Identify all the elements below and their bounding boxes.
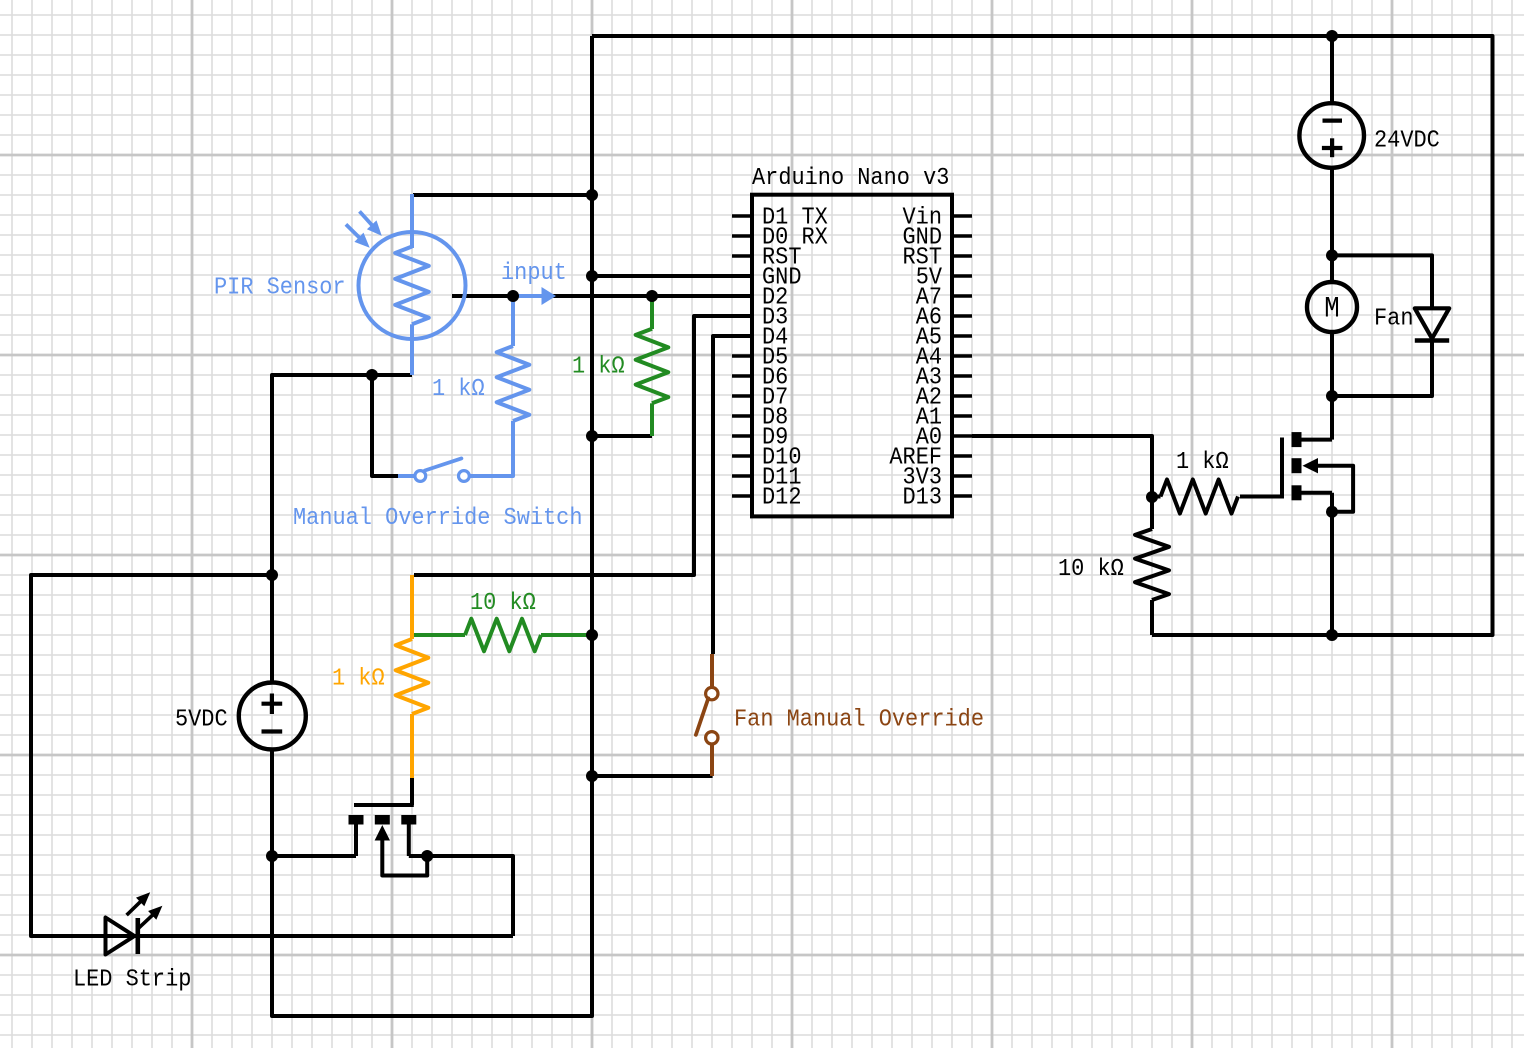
svg-text:1 kΩ: 1 kΩ (572, 354, 625, 381)
label LED Strip (73, 967, 191, 994)
photoresistor PIR sensor (346, 194, 466, 375)
wire A0 to gate node (972, 436, 1152, 497)
junction green resistor bottom / rail (586, 430, 598, 442)
switch Manual Override (blue) (398, 458, 469, 481)
label 1 kOhm blue (432, 376, 485, 403)
label 24VDC (1374, 128, 1440, 155)
resistor 1 kOhm (orange) (396, 575, 429, 778)
svg-text:1 kΩ: 1 kΩ (332, 666, 385, 693)
motor M (fan) (1307, 282, 1357, 396)
svg-text:5VDC: 5VDC (175, 707, 228, 734)
wire left main vertical x=592 + bottom (272, 36, 592, 1016)
label PIR Sensor (214, 275, 346, 302)
resistor 1 kOhm (blue, PIR pulldown) (470, 296, 529, 476)
junction Q1 source-body (421, 850, 433, 862)
wire green resistor bottom (592, 434, 652, 438)
junction PIR top / 5V rail (586, 189, 598, 201)
wire GND pin (592, 274, 752, 278)
label 10 kOhm green (470, 590, 536, 617)
diode D1 (flyback) (1332, 255, 1449, 396)
svg-text:24VDC: 24VDC (1374, 128, 1440, 155)
wire D2 input line (452, 294, 752, 298)
label M (1324, 293, 1339, 327)
svg-text:1 kΩ: 1 kΩ (1176, 449, 1229, 476)
wire PIR top to rail (413, 193, 592, 197)
label 1 kOhm green (572, 354, 625, 381)
wire 5VDC top / switch-left branch (272, 375, 412, 684)
junction diode bottom / motor (1326, 390, 1338, 402)
svg-text:Manual Override Switch: Manual Override Switch (293, 505, 583, 532)
junction input / blue resistor (507, 290, 519, 302)
transistor Q2 (fan MOSFET) (1240, 396, 1353, 635)
resistor 1 kOhm (gate) (1152, 480, 1238, 514)
svg-text:Fan Manual Override: Fan Manual Override (734, 707, 984, 734)
label Fan (1374, 306, 1414, 333)
source 24VDC (1299, 36, 1364, 282)
junction 10k green / rail (586, 629, 598, 641)
resistor 10 kOhm (green) (412, 619, 592, 652)
wire top rail + right frame (592, 36, 1493, 635)
svg-text:Arduino Nano v3: Arduino Nano v3 (752, 165, 949, 192)
junction 24V top rail (1326, 30, 1338, 42)
resistor 10 kOhm (source pulldown) (1135, 497, 1169, 635)
junction Q2 source / bottom rail (1326, 629, 1338, 641)
transistor Q1 (LED MOSFET) (272, 778, 513, 936)
svg-text:M: M (1324, 293, 1339, 327)
input arrow (blue) (514, 287, 556, 305)
switch Fan Manual Override (brown) (696, 654, 718, 776)
wire D4 to fan switch (713, 336, 752, 654)
svg-text:D12: D12 (762, 485, 802, 512)
label 10 kOhm black (1058, 556, 1124, 583)
label Manual Override Switch (293, 505, 583, 532)
label 5VDC (175, 707, 228, 734)
svg-text:PIR Sensor: PIR Sensor (214, 275, 346, 302)
wire fan switch bottom (592, 774, 713, 778)
wire switch left black (372, 375, 398, 476)
label input (501, 260, 567, 287)
resistor 1 kOhm (green) (636, 296, 669, 436)
svg-text:Fan: Fan (1374, 306, 1414, 333)
label 1 kOhm gate (1176, 449, 1229, 476)
svg-text:10 kΩ: 10 kΩ (470, 590, 536, 617)
wire 5V rail left frame + LED wire (31, 575, 513, 936)
junction fan switch bottom / rail (586, 770, 598, 782)
svg-text:LED Strip: LED Strip (73, 967, 191, 994)
LED (LED Strip) (106, 892, 163, 954)
junction GND pin / rail (586, 270, 598, 282)
IC U1 Arduino Nano v3 (pins D1-D12, Vin-D13) (732, 195, 972, 517)
svg-text:input: input (501, 260, 567, 287)
label Arduino Nano v3 (752, 165, 949, 192)
junction switch branch (366, 369, 378, 381)
wire D3 to orange resistor (414, 316, 752, 575)
junction Q1 drain / 5VDC minus (266, 850, 278, 862)
svg-text:D13: D13 (903, 485, 943, 512)
source 5VDC (239, 683, 306, 750)
junction A0 gate node (1146, 491, 1158, 503)
svg-text:1 kΩ: 1 kΩ (432, 376, 485, 403)
label Fan Manual Override (734, 707, 984, 734)
junction Q2 source-body (1326, 506, 1338, 518)
svg-text:10 kΩ: 10 kΩ (1058, 556, 1124, 583)
junction input / green resistor (646, 290, 658, 302)
junction 5VDC top node (266, 569, 278, 581)
label 1 kOhm orange (332, 666, 385, 693)
junction diode top (1326, 249, 1338, 261)
